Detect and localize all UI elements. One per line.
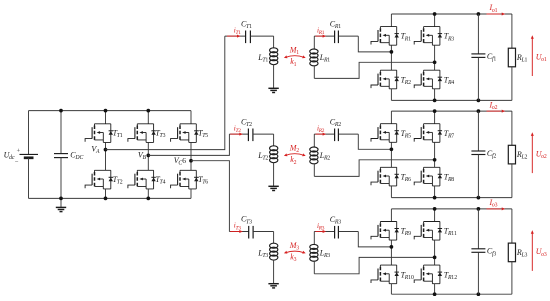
svg-text:+: + xyxy=(16,147,20,154)
svg-text:−: − xyxy=(14,159,18,166)
